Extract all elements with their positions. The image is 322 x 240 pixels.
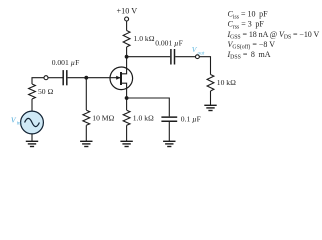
svg-text:1.0 kΩ: 1.0 kΩ <box>133 113 154 122</box>
RS value label 1.0 kOhm <box>133 113 154 122</box>
wire source node to CS <box>127 98 170 116</box>
transistor Q1 JFET circle <box>110 67 133 90</box>
capacitor CS 0.1 uF <box>161 117 177 121</box>
svg-text:+10 V: +10 V <box>116 7 137 16</box>
CS value label 0.1 uF <box>181 114 201 123</box>
svg-text:1.0 kΩ: 1.0 kΩ <box>134 34 155 43</box>
svg-text:10 MΩ: 10 MΩ <box>92 113 114 122</box>
supply +10 V label <box>116 7 137 16</box>
Q1 gate wire <box>68 77 121 79</box>
wire Rsrc to Vin source <box>31 99 33 111</box>
supply terminal circle <box>125 17 129 21</box>
C1 value label 0.001 uF <box>52 58 80 67</box>
wire drain node to C2 <box>127 56 171 58</box>
spec text VGSoff <box>228 40 276 51</box>
wire gate node to RG <box>85 78 87 110</box>
Q1 channel bar <box>120 72 122 85</box>
svg-text:Crss = 3 pF: Crss = 3 pF <box>228 20 265 31</box>
ground RS <box>120 141 132 146</box>
wire RG to ground <box>85 125 87 141</box>
resistor RL 10 kOhm <box>207 75 214 92</box>
RD value label 1.0 kOhm <box>134 34 155 43</box>
svg-text:50 Ω: 50 Ω <box>38 87 53 96</box>
wire RL to ground <box>210 91 212 105</box>
spec text IGSS <box>227 30 320 41</box>
wire RD to drain node <box>126 47 128 57</box>
svg-text:IGSS = 18 nA @ VDS = −10 V: IGSS = 18 nA @ VDS = −10 V <box>227 30 320 41</box>
resistor Rsrc 50 Ohm <box>29 84 36 99</box>
wire Vin to ground <box>31 134 33 141</box>
ground Vin <box>26 141 38 146</box>
svg-text:VGS(off) = −8 V: VGS(off) = −8 V <box>228 40 276 51</box>
Vin sine wave <box>25 118 40 126</box>
Q1 gate arrowhead <box>116 76 120 80</box>
wire RS to ground <box>126 125 128 141</box>
Q1 drain lead <box>122 57 127 74</box>
svg-text:0.1 µF: 0.1 µF <box>181 114 201 123</box>
wire input circle to C1 <box>48 77 63 79</box>
RG value label 10 MOhm <box>92 113 114 122</box>
Vout label <box>192 45 205 57</box>
svg-text:IDSS = 8 mA: IDSS = 8 mA <box>227 50 271 61</box>
ground RL <box>204 105 216 110</box>
capacitor C1 0.001 uF <box>63 70 67 85</box>
ground RG <box>80 141 92 146</box>
RL value label 10 kOhm <box>217 78 236 87</box>
ground CS <box>163 141 175 146</box>
source Vin sine generator <box>21 111 44 134</box>
spec text Crss <box>228 20 265 31</box>
svg-text:0.001 µF: 0.001 µF <box>155 39 183 48</box>
resistor RG 10 MOhm <box>83 110 90 125</box>
wire CS to ground <box>168 122 170 141</box>
Q1 source lead <box>122 83 127 98</box>
node drain junction <box>125 55 129 59</box>
svg-text:0.001 µF: 0.001 µF <box>52 58 80 67</box>
resistor RS 1.0 kOhm <box>123 110 130 125</box>
wire C2 to Vout node <box>175 56 195 58</box>
resistor RD 1.0 kOhm <box>123 31 130 47</box>
wire Vout node to RL <box>199 57 210 75</box>
node input terminal <box>44 76 48 80</box>
svg-text:in: in <box>17 120 21 126</box>
node source junction <box>125 96 129 100</box>
Vin label <box>11 115 21 126</box>
spec text IDSS <box>227 50 271 61</box>
svg-text:10 kΩ: 10 kΩ <box>217 78 236 87</box>
spec text Ciss <box>228 10 269 21</box>
wire source node to RS <box>126 98 128 110</box>
wire input corner to Rsrc <box>32 78 44 84</box>
svg-text:out: out <box>198 51 205 57</box>
node gate junction <box>84 76 88 80</box>
wire supply to RD <box>126 21 128 31</box>
Rsrc value label 50 Ohm <box>38 87 53 96</box>
node Vout terminal <box>196 55 200 59</box>
C2 value label 0.001 uF <box>155 39 183 48</box>
capacitor C2 0.001 uF <box>171 49 175 65</box>
svg-text:Ciss = 10 pF: Ciss = 10 pF <box>228 10 269 21</box>
